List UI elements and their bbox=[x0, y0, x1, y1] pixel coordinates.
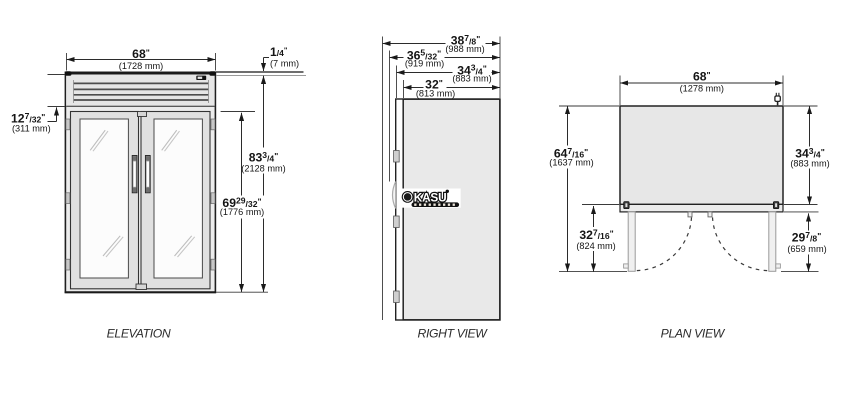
dim 38 7/8" (988 mm) bbox=[383, 33, 501, 54]
right view door handle profile bbox=[393, 182, 396, 209]
svg-text:(7 mm): (7 mm) bbox=[270, 59, 299, 69]
svg-text:PLAN VIEW: PLAN VIEW bbox=[661, 327, 726, 341]
plan cabinet body bbox=[620, 106, 783, 204]
right door hinges bbox=[211, 119, 215, 270]
svg-text:68": 68" bbox=[132, 47, 150, 61]
svg-text:(659 mm): (659 mm) bbox=[787, 244, 826, 254]
dim 1/4" (7 mm) top right bbox=[216, 45, 306, 76]
control panel display bbox=[196, 76, 206, 80]
left door bbox=[71, 112, 139, 289]
top rail corner caps bbox=[65, 71, 216, 75]
plan hinge blocks bbox=[624, 202, 779, 209]
svg-text:KASU: KASU bbox=[414, 190, 447, 204]
right view hinges bbox=[394, 151, 400, 303]
svg-text:(883 mm): (883 mm) bbox=[452, 74, 491, 84]
right door swing arc bbox=[713, 217, 768, 270]
svg-text:(1728 mm): (1728 mm) bbox=[119, 61, 163, 71]
svg-text:(919 mm): (919 mm) bbox=[405, 59, 444, 69]
right view cabinet bbox=[396, 99, 500, 320]
handle plane extension line bbox=[382, 37, 384, 321]
door face extension line bbox=[389, 51, 391, 182]
svg-text:(813 mm): (813 mm) bbox=[416, 88, 455, 98]
svg-text:(2128 mm): (2128 mm) bbox=[241, 164, 285, 174]
dim 32 7/16" (824 mm) plan lower-left bbox=[575, 205, 619, 272]
svg-text:1/4": 1/4" bbox=[270, 45, 288, 59]
front body extension lines bbox=[397, 37, 501, 99]
dim 68" (1278 mm) plan top bbox=[620, 70, 783, 105]
ELEVATION label bbox=[107, 327, 171, 341]
electrical plug symbol bbox=[775, 93, 780, 106]
dim 36 5/32" (919 mm) bbox=[390, 48, 501, 69]
right door bbox=[141, 112, 210, 289]
dim 34 3/4" (883 mm) plan right bbox=[784, 106, 830, 205]
right door handle bbox=[145, 156, 150, 193]
svg-text:ELEVATION: ELEVATION bbox=[107, 327, 171, 341]
svg-text:(1776 mm): (1776 mm) bbox=[220, 207, 264, 217]
cabinet bottom line bbox=[65, 291, 216, 293]
RIGHT VIEW label bbox=[418, 327, 489, 341]
left door swing arc bbox=[637, 217, 692, 270]
plan center door stop tabs bbox=[688, 212, 712, 217]
right door glass bbox=[154, 119, 202, 278]
dim 69 29/32" (1776 mm) bbox=[218, 112, 265, 293]
left door glass bbox=[80, 119, 128, 278]
left door hinges bbox=[66, 119, 70, 270]
floor extension line bbox=[216, 291, 268, 293]
left door handle bbox=[132, 156, 137, 193]
dim 12 7/32" (311 mm) left bbox=[11, 75, 65, 134]
louver header panel bbox=[66, 75, 214, 106]
dim 29 7/8" (659 mm) plan lower-right bbox=[781, 212, 828, 272]
dim 83 3/4" (2128 mm) bbox=[241, 76, 285, 292]
svg-text:68": 68" bbox=[693, 70, 711, 84]
plan front rail bbox=[620, 204, 783, 212]
svg-text:RIGHT VIEW: RIGHT VIEW bbox=[418, 327, 489, 341]
PLAN VIEW label bbox=[661, 327, 726, 341]
cabinet body bbox=[65, 72, 215, 292]
svg-text:(988 mm): (988 mm) bbox=[445, 44, 484, 54]
OKASU watermark bbox=[400, 189, 460, 208]
dim 32" (813 mm) bbox=[404, 78, 501, 99]
svg-text:(1278 mm): (1278 mm) bbox=[680, 83, 724, 93]
svg-text:(883 mm): (883 mm) bbox=[790, 159, 829, 169]
dim 68" (1728 mm) elevation top bbox=[67, 47, 216, 71]
center mullion notches bbox=[136, 112, 147, 290]
dim 34 3/4" (883 mm) right view bbox=[397, 63, 501, 84]
plan left open door bbox=[624, 212, 636, 271]
svg-text:(1637 mm): (1637 mm) bbox=[549, 157, 593, 167]
svg-text:(311 mm): (311 mm) bbox=[12, 124, 51, 134]
plan right open door bbox=[769, 212, 781, 271]
dim 64 7/16" (1637 mm) plan left bbox=[549, 106, 627, 272]
svg-text:(824 mm): (824 mm) bbox=[576, 241, 615, 251]
